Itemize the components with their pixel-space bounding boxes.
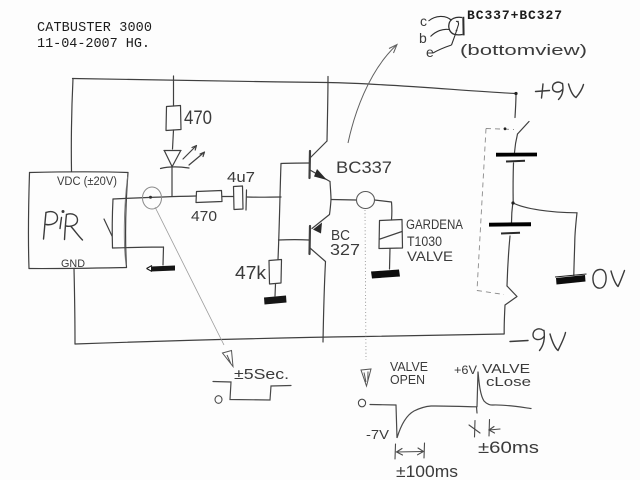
svg-text:cLose: cLose	[486, 374, 531, 389]
svg-text:470: 470	[184, 108, 212, 129]
svg-text:GND: GND	[61, 258, 85, 270]
svg-text:BC337+BC327: BC337+BC327	[467, 8, 562, 23]
svg-text:11-04-2007 HG.: 11-04-2007 HG.	[37, 37, 150, 52]
svg-text:+6V: +6V	[454, 365, 477, 377]
svg-text:±100ms: ±100ms	[396, 462, 458, 480]
svg-text:4u7: 4u7	[227, 169, 255, 186]
svg-text:47k: 47k	[235, 263, 267, 283]
svg-text:T1030: T1030	[407, 233, 442, 249]
svg-text:e: e	[426, 44, 434, 60]
svg-text:GARDENA: GARDENA	[406, 217, 463, 232]
svg-text:±5Sec.: ±5Sec.	[234, 366, 289, 383]
svg-text:BC337: BC337	[336, 158, 392, 177]
svg-text:(bottomview): (bottomview)	[460, 42, 587, 59]
svg-text:327: 327	[330, 242, 360, 259]
svg-text:-7V: -7V	[366, 428, 390, 442]
svg-text:CATBUSTER 3000: CATBUSTER 3000	[37, 21, 152, 36]
svg-text:VALVE: VALVE	[407, 248, 453, 264]
svg-text:c: c	[420, 13, 427, 29]
svg-text:OPEN: OPEN	[390, 373, 425, 387]
svg-text:±60ms: ±60ms	[478, 438, 539, 457]
svg-text:VDC (±20V): VDC (±20V)	[57, 176, 117, 188]
svg-text:VALVE: VALVE	[390, 360, 428, 374]
svg-text:470: 470	[191, 208, 217, 225]
